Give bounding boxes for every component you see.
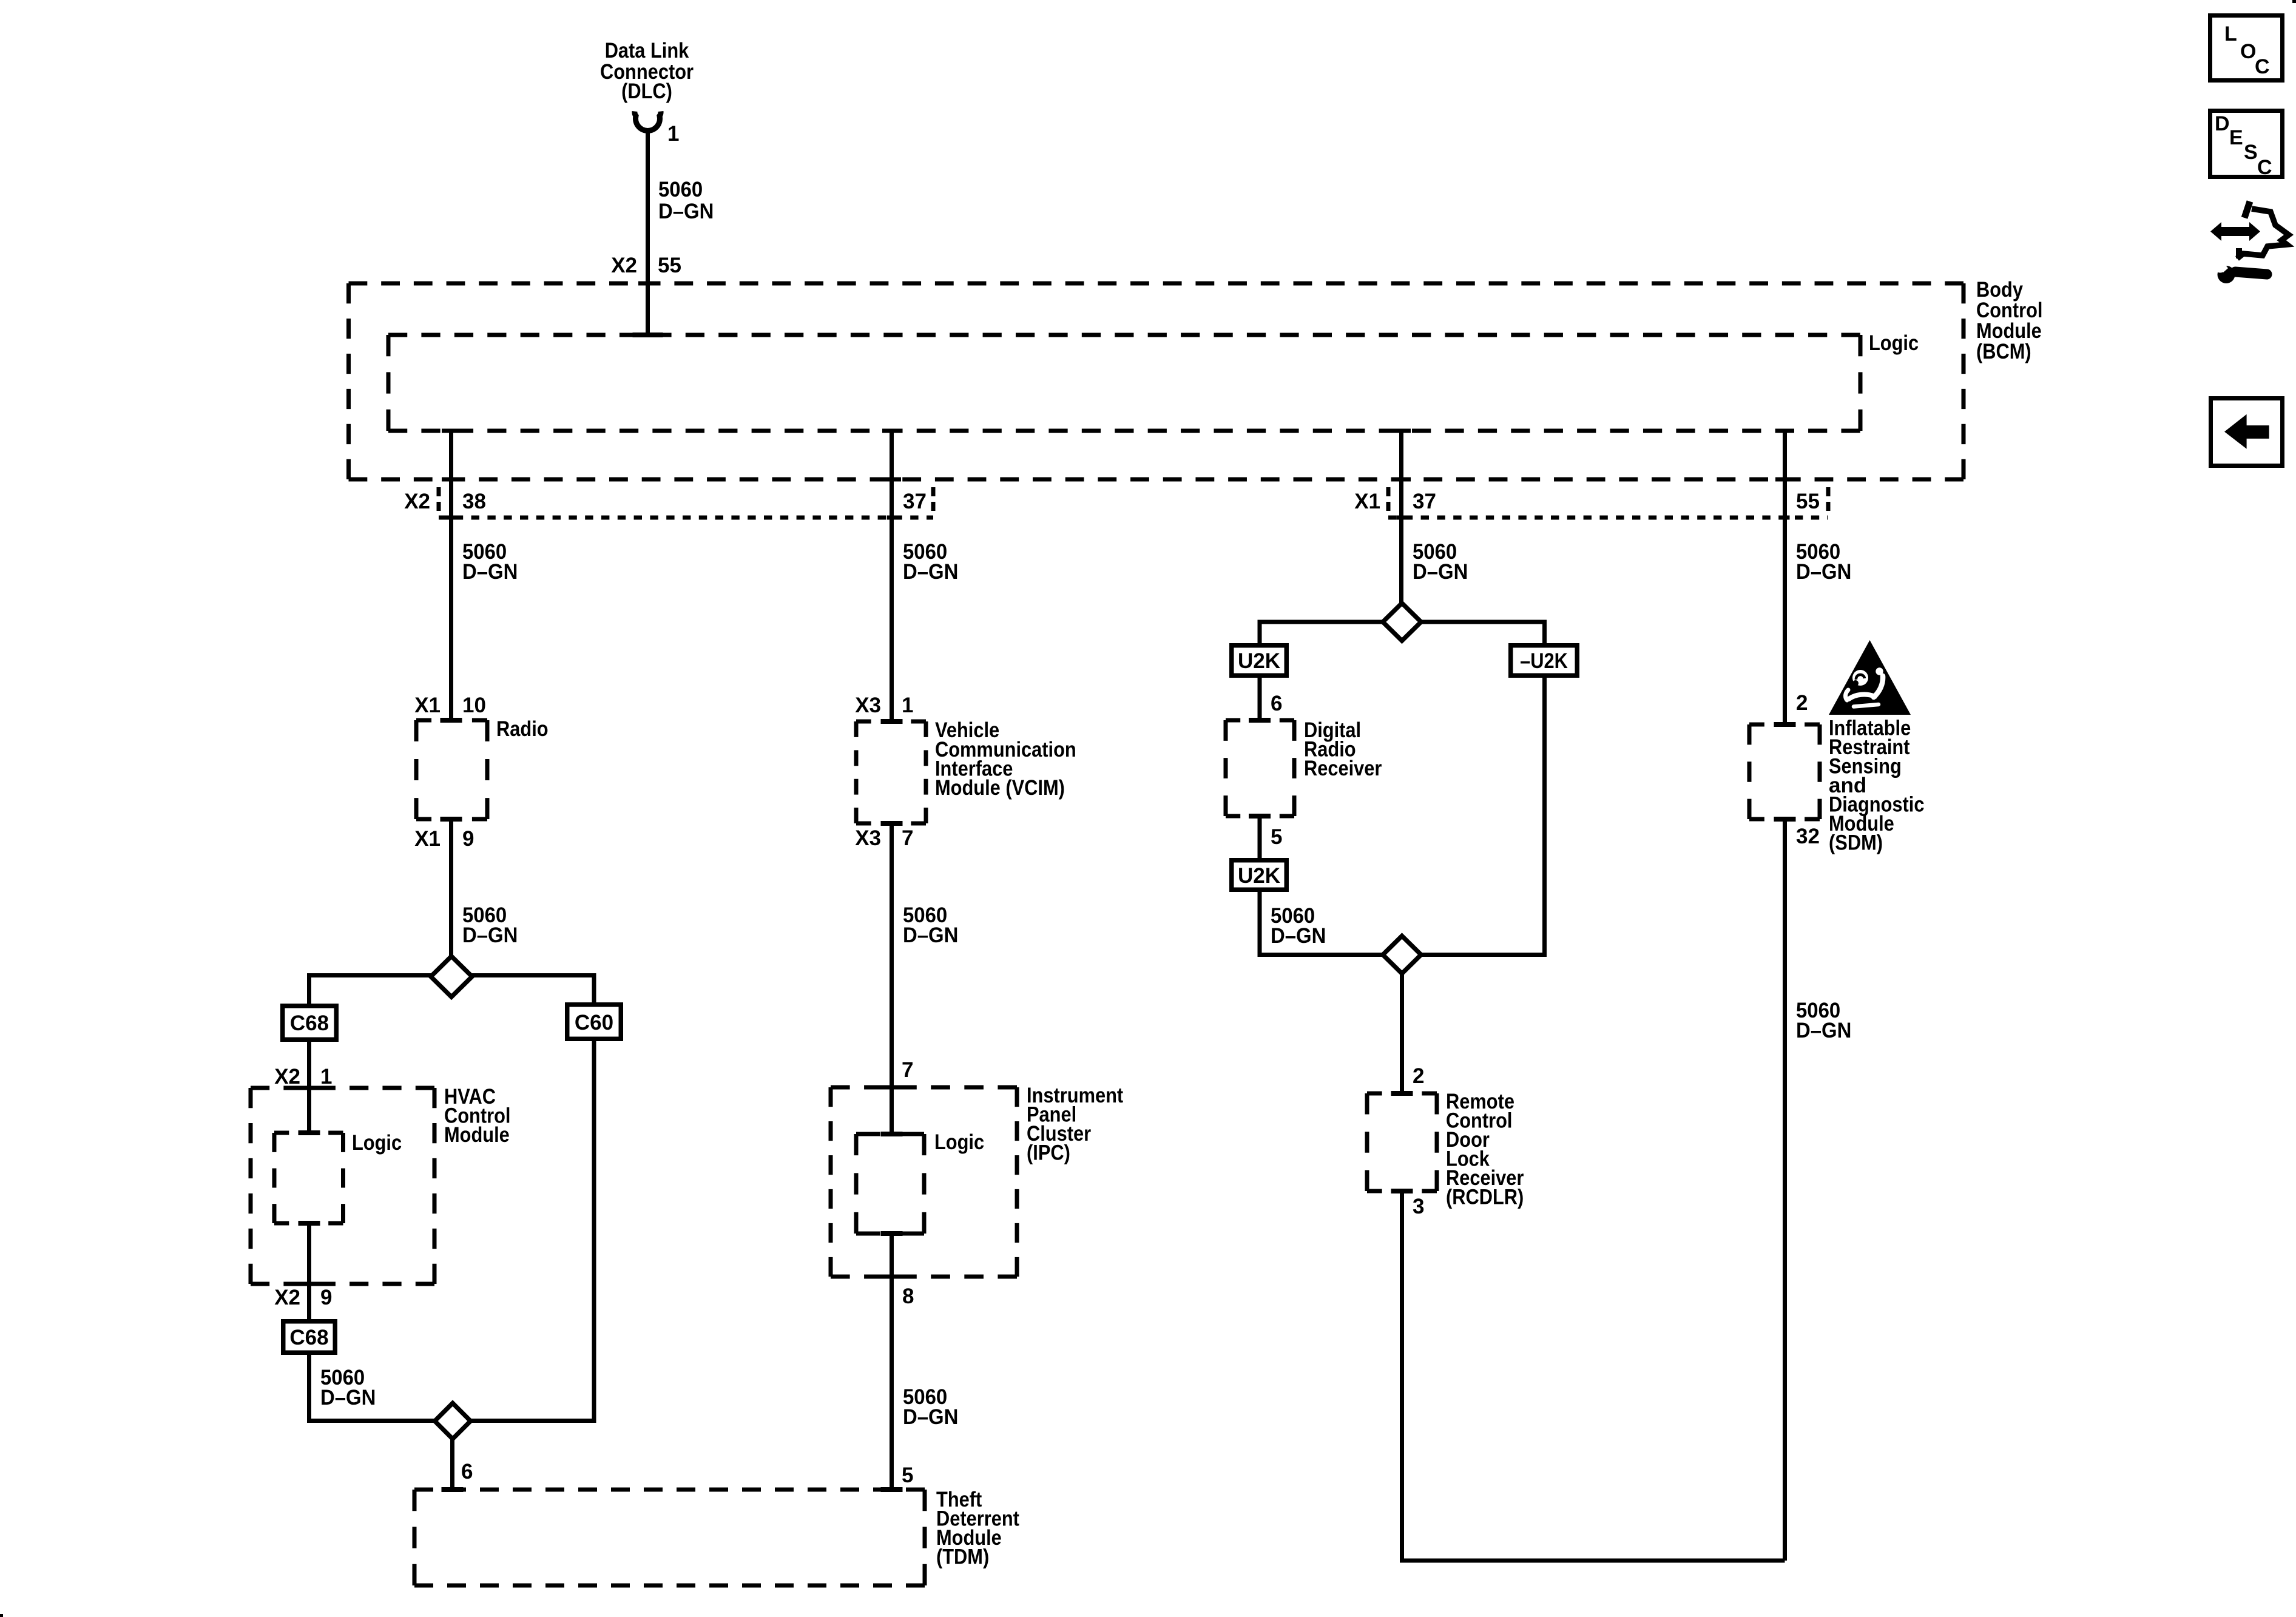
svg-text:D–GN: D–GN [903, 1405, 958, 1429]
connector X2 bracket (BCM bottom) [439, 487, 933, 520]
wire junction S2 to TDM [450, 1439, 454, 1491]
wire BCM X1-37 to junction S3 [1399, 431, 1403, 604]
svg-text:Data Link: Data Link [605, 39, 689, 62]
svg-text:O: O [2240, 40, 2256, 63]
label 37 (BCM pin, VCIM wire) [903, 490, 927, 513]
svg-text:C: C [2257, 156, 2272, 179]
svg-text:D–GN: D–GN [1796, 560, 1851, 584]
svg-text:37: 37 [1413, 490, 1436, 513]
svg-text:Logic: Logic [1869, 331, 1919, 355]
DLC label [600, 39, 694, 103]
diagnostic icon double arrow [2210, 222, 2260, 241]
svg-text:1: 1 [320, 1065, 332, 1089]
label X2 9 (HVAC pin) [274, 1286, 332, 1309]
wire -U2K branch to junction S4 [1421, 678, 1545, 955]
diagnostic icon head outline [2237, 201, 2289, 258]
junction diamond S4 [1383, 936, 1421, 974]
svg-text:X1: X1 [414, 827, 441, 851]
wire RCDLR-3 to SDM wire [1402, 1191, 1785, 1561]
label 6 (DRR pin) [1271, 692, 1282, 715]
module TDM dashed box [414, 1487, 925, 1585]
wire BCM-37 to VCIM [890, 431, 894, 723]
label 2 (SDM pin) [1796, 691, 1808, 715]
label Logic (IPC) [934, 1130, 984, 1154]
connector label X2 55 (BCM top) [611, 254, 681, 277]
svg-text:(IPC): (IPC) [1027, 1141, 1070, 1165]
label 32 (SDM pin) [1796, 825, 1820, 848]
svg-text:6: 6 [1271, 692, 1282, 715]
svg-text:C: C [2255, 55, 2270, 78]
wire BCM-38 to Radio [449, 431, 453, 722]
svg-text:(RCDLR): (RCDLR) [1446, 1186, 1524, 1209]
label X2 1 (HVAC pin) [274, 1065, 332, 1089]
svg-text:Module: Module [444, 1123, 510, 1147]
label X1 37 (BCM pin) [1354, 490, 1436, 513]
wire label 5060 D-GN (below radio) [462, 903, 518, 947]
svg-text:L: L [2224, 22, 2237, 46]
wire C68 to HVAC logic [307, 1042, 311, 1134]
module IPC outer dashed box [831, 1085, 1017, 1279]
module HVAC outer dashed box [251, 1086, 434, 1286]
junction diamond S3 [1383, 603, 1421, 641]
svg-text:X3: X3 [855, 694, 881, 717]
svg-text:5: 5 [1271, 825, 1282, 849]
label X3 7 (VCIM pin) [855, 826, 913, 850]
wire IPC-8 to TDM [890, 1234, 894, 1491]
svg-text:(BCM): (BCM) [1976, 340, 2031, 363]
label 7 (IPC pin) [902, 1058, 913, 1082]
svg-text:32: 32 [1796, 825, 1820, 848]
wire label 5060 D-GN (VCIM wire) [903, 540, 958, 584]
label Inflatable Restraint Sensing and Diagnostic Module (SDM) [1829, 717, 1925, 855]
svg-text:D–GN: D–GN [1271, 924, 1326, 948]
svg-text:D–GN: D–GN [320, 1386, 376, 1409]
connector -U2K box [1511, 646, 1578, 676]
module VCIM dashed box [856, 719, 926, 826]
svg-text:Module (VCIM): Module (VCIM) [935, 776, 1065, 800]
svg-text:X2: X2 [611, 254, 637, 277]
wire label 5060 D-GN (below IPC) [903, 1385, 958, 1429]
svg-text:D–GN: D–GN [462, 560, 518, 584]
connector C68 upper box [283, 1006, 337, 1040]
label 8 (IPC pin) [902, 1284, 914, 1308]
module RCDLR dashed box [1367, 1091, 1437, 1193]
svg-text:D: D [2215, 112, 2230, 135]
page corner mark bottom left [0, 1614, 3, 1617]
module BCM outer dashed box [349, 282, 1964, 482]
svg-text:D–GN: D–GN [903, 923, 958, 947]
svg-text:1: 1 [667, 122, 679, 146]
svg-text:D–GN: D–GN [1413, 560, 1468, 584]
svg-text:Receiver: Receiver [1304, 757, 1382, 780]
label Radio [496, 717, 549, 741]
label 6 (TDM pin) [461, 1460, 473, 1484]
wire U2K to DRR [1258, 678, 1262, 721]
svg-text:Logic: Logic [352, 1131, 402, 1155]
svg-text:9: 9 [462, 827, 474, 851]
svg-text:Radio: Radio [496, 717, 549, 741]
svg-text:U2K: U2K [1238, 864, 1280, 888]
label X1 9 (Radio pin) [414, 827, 474, 851]
svg-text:D–GN: D–GN [903, 560, 958, 584]
svg-text:6: 6 [461, 1460, 473, 1484]
svg-text:(TDM): (TDM) [936, 1545, 989, 1569]
DLC connector cup [635, 112, 661, 131]
svg-text:9: 9 [320, 1286, 332, 1309]
wire U2K lower to junction S4 [1260, 892, 1383, 955]
label HVAC Control Module [444, 1085, 511, 1147]
svg-text:X2: X2 [274, 1286, 300, 1309]
label X3 1 (VCIM pin) [855, 694, 913, 717]
svg-text:3: 3 [1413, 1195, 1424, 1218]
connector C60 box [567, 1005, 621, 1039]
svg-text:D–GN: D–GN [462, 923, 518, 947]
module Digital Radio Receiver dashed box [1226, 718, 1294, 819]
svg-text:37: 37 [903, 490, 927, 513]
wire DRR-5 to U2K lower [1258, 816, 1262, 858]
svg-text:C68: C68 [289, 1326, 328, 1349]
label 3 (RCDLR pin) [1413, 1195, 1424, 1218]
label X1 10 (Radio pin) [414, 694, 486, 717]
svg-text:7: 7 [902, 826, 913, 850]
wire label 5060 D-GN (radio wire) [462, 540, 518, 584]
label Vehicle Communication Interface Module (VCIM) [935, 718, 1076, 800]
wire C68 to junction S2 [309, 1355, 435, 1421]
connector U2K lower box [1232, 860, 1287, 890]
svg-text:55: 55 [658, 254, 681, 277]
wire BCM-55 to SDM [1783, 431, 1787, 726]
LOC reference box [2210, 16, 2283, 81]
svg-text:Logic: Logic [934, 1130, 984, 1154]
wire label 5060 D-GN (DRR wire) [1413, 540, 1468, 584]
label Instrument Panel Cluster (IPC) [1027, 1084, 1123, 1165]
label Theft Deterrent Module (TDM) [936, 1488, 1019, 1569]
BCM logic inner dashed box [388, 333, 1860, 433]
svg-text:X2: X2 [274, 1065, 300, 1089]
pin 1 label (DLC) [667, 122, 679, 146]
label X2 38 (BCM pin) [404, 490, 486, 513]
svg-text:D–GN: D–GN [1796, 1019, 1851, 1042]
junction diamond S2 [435, 1403, 471, 1439]
wire DLC pin1 to BCM logic [646, 129, 650, 335]
svg-text:D–GN: D–GN [658, 200, 714, 223]
airbag warning triangle [1829, 640, 1911, 715]
DESC reference box [2210, 111, 2283, 180]
svg-text:2: 2 [1796, 691, 1808, 715]
svg-text:7: 7 [902, 1058, 913, 1082]
label 55 (BCM pin, SDM wire) [1796, 490, 1820, 513]
svg-text:X3: X3 [855, 826, 881, 850]
svg-text:1: 1 [902, 694, 913, 717]
label 5 (DRR pin) [1271, 825, 1282, 849]
wire label 5060 D-GN (below U2K) [1271, 904, 1326, 948]
wire C60 to junction S2 [471, 1041, 594, 1421]
wire label 5060 D-GN (below VCIM) [903, 903, 958, 947]
svg-text:U2K: U2K [1238, 649, 1280, 673]
wire VCIM-7 to IPC logic [890, 823, 894, 1135]
svg-text:–U2K: –U2K [1520, 649, 1568, 673]
svg-text:X2: X2 [404, 490, 430, 513]
label 5 (TDM pin) [902, 1463, 913, 1487]
page corner mark top right [2292, 0, 2296, 3]
label Logic (BCM) [1869, 331, 1919, 355]
wire label 5060 D-GN (below SDM) [1796, 999, 1851, 1042]
module SDM dashed box [1749, 722, 1820, 822]
wire HVAC logic to C68 lower [307, 1223, 311, 1319]
wire junction S4 to RCDLR [1400, 973, 1404, 1095]
label Logic (HVAC) [352, 1131, 402, 1155]
svg-text:8: 8 [902, 1284, 914, 1308]
svg-text:5: 5 [902, 1463, 913, 1487]
connector U2K upper box [1232, 646, 1287, 676]
svg-text:X1: X1 [414, 694, 441, 717]
wire label 5060 D-GN (SDM wire) [1796, 540, 1851, 584]
wire Radio-9 to junction S1 [449, 819, 453, 957]
junction diamond S1 wires [309, 973, 595, 1005]
junction diamond S1 [431, 956, 472, 997]
connector X1 bracket (BCM bottom) [1388, 487, 1828, 520]
HVAC logic inner dashed box [274, 1130, 343, 1226]
svg-text:38: 38 [462, 490, 486, 513]
label Body Control Module (BCM) [1976, 278, 2043, 363]
svg-text:(DLC): (DLC) [621, 79, 672, 103]
connector C68 lower box [283, 1322, 336, 1353]
svg-text:S: S [2244, 141, 2258, 164]
label Remote Control Door Lock Receiver (RCDLR) [1446, 1090, 1524, 1209]
svg-text:X1: X1 [1354, 490, 1380, 513]
wire label 5060 D-GN (DLC) [658, 178, 714, 223]
junction S3 branch wires [1260, 622, 1545, 644]
IPC logic inner dashed box [856, 1132, 924, 1236]
svg-text:5060: 5060 [658, 178, 703, 201]
svg-text:C60: C60 [575, 1011, 613, 1035]
diagnostic icon wrench [2213, 260, 2267, 283]
module Radio dashed box [416, 718, 487, 822]
wire SDM-32 down to RCDLR join [1783, 819, 1787, 1561]
label Digital Radio Receiver [1304, 718, 1382, 780]
svg-text:E: E [2229, 126, 2243, 149]
back arrow box [2211, 399, 2283, 466]
label 2 (RCDLR pin) [1413, 1064, 1424, 1088]
svg-text:10: 10 [462, 694, 486, 717]
wire label 5060 D-GN (below C68) [320, 1366, 376, 1409]
svg-text:2: 2 [1413, 1064, 1424, 1088]
svg-text:C68: C68 [290, 1011, 329, 1035]
svg-text:55: 55 [1796, 490, 1820, 513]
svg-text:(SDM): (SDM) [1829, 831, 1883, 855]
